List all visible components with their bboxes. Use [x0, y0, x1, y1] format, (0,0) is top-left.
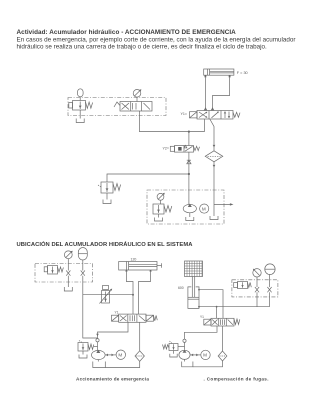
motor M3	[201, 350, 210, 359]
accumulator block box 3 (dash-dot)	[232, 280, 278, 297]
bottom port wire	[198, 306, 269, 308]
svg-text:. Compensación de fugas.: . Compensación de fugas.	[204, 377, 269, 382]
svg-text:120: 120	[131, 258, 137, 262]
relief valve RV3	[78, 341, 98, 359]
main accumulator line down	[83, 276, 98, 338]
pump P2	[92, 350, 106, 362]
tank under block valve	[76, 110, 84, 123]
gauge G3	[64, 251, 72, 271]
valve V4 4/3	[204, 318, 240, 326]
motor M2	[116, 350, 125, 359]
shut-off valve X2	[81, 271, 85, 276]
tank under RV1	[103, 193, 111, 204]
svg-text:M: M	[203, 353, 207, 358]
return line into tank	[210, 162, 218, 220]
wire cylinder left port to valve1 A	[205, 77, 207, 110]
relief valve RV4	[163, 341, 185, 357]
relief valve RV2 in box	[153, 204, 172, 221]
motor M1	[200, 204, 209, 213]
wire valve1 T diagonal to filter line	[210, 119, 214, 151]
wire junction to relief RV1	[107, 174, 189, 182]
filter to tank	[105, 361, 139, 367]
wire valve P to pump	[98, 322, 129, 350]
relief valve in block 3	[234, 282, 252, 289]
svg-text:Y1: Y1	[200, 315, 204, 319]
flow arrow on pump line	[96, 334, 99, 336]
svg-text:F = 30: F = 30	[237, 71, 248, 75]
svg-text:600: 600	[178, 286, 184, 290]
gauge G1	[157, 193, 165, 204]
accumulator feed line to valve A line	[83, 294, 133, 296]
junction circle	[96, 339, 99, 342]
tank under X1	[64, 287, 72, 291]
accumulator block box (dash-dot)	[35, 264, 93, 283]
check valve below Y2	[187, 152, 191, 174]
flow control C3	[100, 286, 113, 304]
load mass block (hatched)	[185, 261, 203, 277]
svg-text:Actividad: Acumulador hidrául: Actividad: Acumulador hidráulico - ACCIO…	[17, 29, 237, 36]
junction circle 3	[183, 339, 186, 342]
node junction dot	[188, 131, 190, 133]
power unit box (dash-dot)	[147, 190, 224, 224]
valve V2 Y2 2/2	[170, 145, 199, 152]
wire cylinder right port to valve1 B	[213, 77, 230, 110]
coupling 3	[190, 354, 201, 357]
cylinder CYL1	[204, 69, 234, 77]
relief valve in block	[44, 266, 63, 275]
drain line out right with arrow	[214, 203, 234, 205]
shut-off valve X4	[267, 287, 271, 307]
wire junction down to valve Y2	[188, 132, 190, 146]
shut-off valve X1	[66, 271, 70, 288]
wire valve T to filter	[222, 326, 224, 351]
svg-text:M: M	[118, 353, 122, 358]
wire right port to valve B	[139, 272, 151, 314]
svg-text:UBICACIÓN DEL ACUMULADOR HIDRÁ: UBICACIÓN DEL ACUMULADOR HIDRÁULICO EN E…	[17, 240, 194, 248]
svg-text:En casos de emergencia, por ej: En casos de emergencia, por ejemplo cort…	[17, 36, 296, 43]
wire valve1 P down	[204, 119, 206, 132]
shut-off valve X3	[255, 287, 259, 307]
directional valve in block	[114, 102, 152, 112]
svg-text:Y1: Y1	[115, 311, 119, 315]
wire left box to P junction	[140, 111, 205, 132]
valve V1 4/3 solenoid	[190, 108, 241, 119]
pump P1	[183, 204, 196, 221]
shut-off/relief valve in block	[69, 101, 93, 111]
stub valve A port up to bottom wire	[216, 307, 218, 319]
wire left port to valve A	[126, 272, 133, 314]
svg-text:hidráulico se realiza una carr: hidráulico se realiza una carrera de tra…	[17, 43, 268, 50]
gauge G2 on block	[133, 89, 141, 101]
tank T3	[182, 362, 193, 367]
arrow down on filter line	[213, 145, 216, 148]
vertical cylinder CYL3	[188, 287, 199, 309]
relief valve RV1	[98, 182, 121, 193]
wire junction down to pump	[188, 174, 190, 205]
top port wire to valve	[198, 289, 223, 318]
pump P3	[179, 350, 190, 362]
filter FL2	[135, 351, 144, 362]
tank T2	[93, 362, 106, 368]
valve V3 4/3	[112, 314, 158, 322]
accumulator A1	[78, 89, 84, 101]
filter FL1 diamond	[205, 151, 223, 162]
node junction dot lower	[188, 173, 190, 175]
svg-text:Y1=: Y1=	[181, 112, 188, 116]
gauge G4	[253, 269, 261, 287]
cylinder CYL2	[119, 262, 162, 272]
filter to tank 3	[193, 361, 223, 367]
piston rod	[192, 277, 194, 298]
wire valve T to filter	[139, 322, 141, 351]
filter FL3	[218, 351, 227, 361]
accumulator A2	[78, 248, 87, 271]
svg-text:M: M	[202, 206, 206, 211]
accumulator safety block box (dash-dot)	[68, 98, 166, 116]
svg-text:Y2=: Y2=	[163, 147, 170, 151]
wire valve P to pump	[185, 326, 218, 350]
accumulator A3	[265, 264, 275, 287]
coupling	[105, 354, 116, 357]
svg-text:Accionamiento de emergencia: Accionamiento de emergencia	[76, 377, 149, 382]
